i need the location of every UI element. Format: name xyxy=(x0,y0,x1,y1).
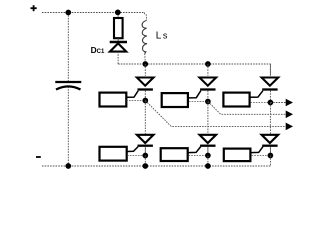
wire: B1 to bottom rail xyxy=(144,156,146,167)
inductor Ls coil xyxy=(142,21,147,54)
node 2 junction dot xyxy=(205,99,211,105)
thyristor B3 cathode bar xyxy=(262,145,277,147)
wire: capacitor branch upper xyxy=(67,13,69,82)
cathode return lead box6 to B3 node xyxy=(252,155,271,157)
thyristor B1 cathode bar xyxy=(138,145,153,147)
wire: bottom negative rail xyxy=(42,165,270,167)
thyristor T1 cathode bar xyxy=(138,88,153,90)
gate lead T2 xyxy=(189,91,201,98)
junction dot bus / phase 2 xyxy=(205,61,211,67)
thyristor T2 cathode bar xyxy=(200,88,215,90)
node 1 junction dot xyxy=(142,98,148,104)
wire: T1 anode stub xyxy=(144,64,146,76)
junction dot bottom rail / phase 1 xyxy=(142,163,148,169)
thyristor B2 triangle xyxy=(200,135,217,143)
minus terminal label xyxy=(36,156,41,158)
gate drive box 4 xyxy=(100,147,127,161)
gate drive box 5 xyxy=(161,148,188,161)
wire: resistor to diode xyxy=(117,38,119,41)
output arrow B xyxy=(286,111,293,119)
resistor (snubber) body xyxy=(114,18,123,38)
wire: node 3 down to B3 xyxy=(269,103,271,135)
wire: T3 anode stub xyxy=(269,64,271,76)
wire: node 2 down to B2 xyxy=(207,102,209,135)
B1 cathode junction dot xyxy=(142,153,148,159)
wire: node 3 to output A xyxy=(270,102,285,104)
wire: B2 cathode to dot xyxy=(207,147,209,156)
wire: capacitor branch lower xyxy=(67,87,69,167)
capacitor C1 bottom curved plate xyxy=(56,86,81,89)
B3 cathode junction dot xyxy=(268,153,274,159)
cathode return lead box5 to B2 node xyxy=(189,155,208,157)
wire: node 1 down to B1 xyxy=(144,101,146,135)
diode DC1 triangle xyxy=(110,43,126,51)
junction dot bus / phase 1 xyxy=(142,61,148,67)
gate drive box 3 xyxy=(223,93,249,107)
wire: rail corner down to inductor xyxy=(145,13,147,21)
cathode return lead box2 to node 2 xyxy=(189,101,208,103)
thyristor B2 cathode bar xyxy=(200,145,215,147)
cathode return lead box4 to B1 node xyxy=(127,155,145,157)
node 3 junction dot xyxy=(268,100,274,106)
wire: diode to commutation bus xyxy=(117,52,119,64)
thyristor T2 triangle xyxy=(200,78,217,86)
gate lead T1 xyxy=(126,91,138,98)
plus terminal label xyxy=(31,5,37,11)
capacitor C1 (DC link) top plate xyxy=(55,81,81,83)
wire: resistor branch stub from rail xyxy=(117,13,119,19)
wire: T2 cathode to node 2 xyxy=(207,91,209,102)
junction dot top rail / capacitor xyxy=(65,10,71,16)
gate lead B2 xyxy=(188,147,200,153)
output arrow A xyxy=(286,99,293,107)
wire: B3 cathode to dot xyxy=(269,147,271,156)
thyristor T1 triangle xyxy=(137,78,154,86)
wire: inductor to bus junction xyxy=(144,54,147,65)
wire: node 2 diagonal to output B xyxy=(208,102,286,115)
thyristor B3 triangle xyxy=(262,135,279,143)
junction dot bottom rail / phase 2 xyxy=(205,163,211,169)
gate lead B3 xyxy=(251,147,263,153)
thyristor T3 triangle xyxy=(262,78,279,86)
junction dot top rail / resistor branch xyxy=(115,10,121,16)
wire: T2 anode stub xyxy=(207,64,209,76)
thyristor T3 cathode bar xyxy=(262,88,277,90)
wire: B1 cathode to dot xyxy=(144,147,146,156)
gate drive box 2 xyxy=(162,93,188,107)
wire: top positive rail xyxy=(42,12,145,14)
gate lead B1 xyxy=(127,147,138,152)
cathode return lead box1 to node 1 xyxy=(126,100,145,102)
wire: T1 cathode to node 1 xyxy=(144,91,146,101)
gate lead T3 xyxy=(250,91,263,98)
wire: node 1 diagonal to output C xyxy=(145,101,285,127)
gate drive box 6 xyxy=(224,149,251,162)
cathode return lead box3 to node 3 xyxy=(250,102,270,104)
output arrow C xyxy=(286,123,293,131)
junction dot bottom rail / capacitor xyxy=(65,163,71,169)
thyristor B1 triangle xyxy=(137,135,154,143)
B2 cathode junction dot xyxy=(205,153,211,159)
wire: B2 to bottom rail xyxy=(207,156,209,167)
wire: T3 cathode to node 3 xyxy=(269,91,271,103)
wire: B3 down to bottom rail corner xyxy=(269,156,271,167)
wire: commutation bus horizontal xyxy=(118,64,270,76)
diode DC1 cathode bar xyxy=(110,41,127,43)
gate drive box 1 xyxy=(100,93,127,107)
